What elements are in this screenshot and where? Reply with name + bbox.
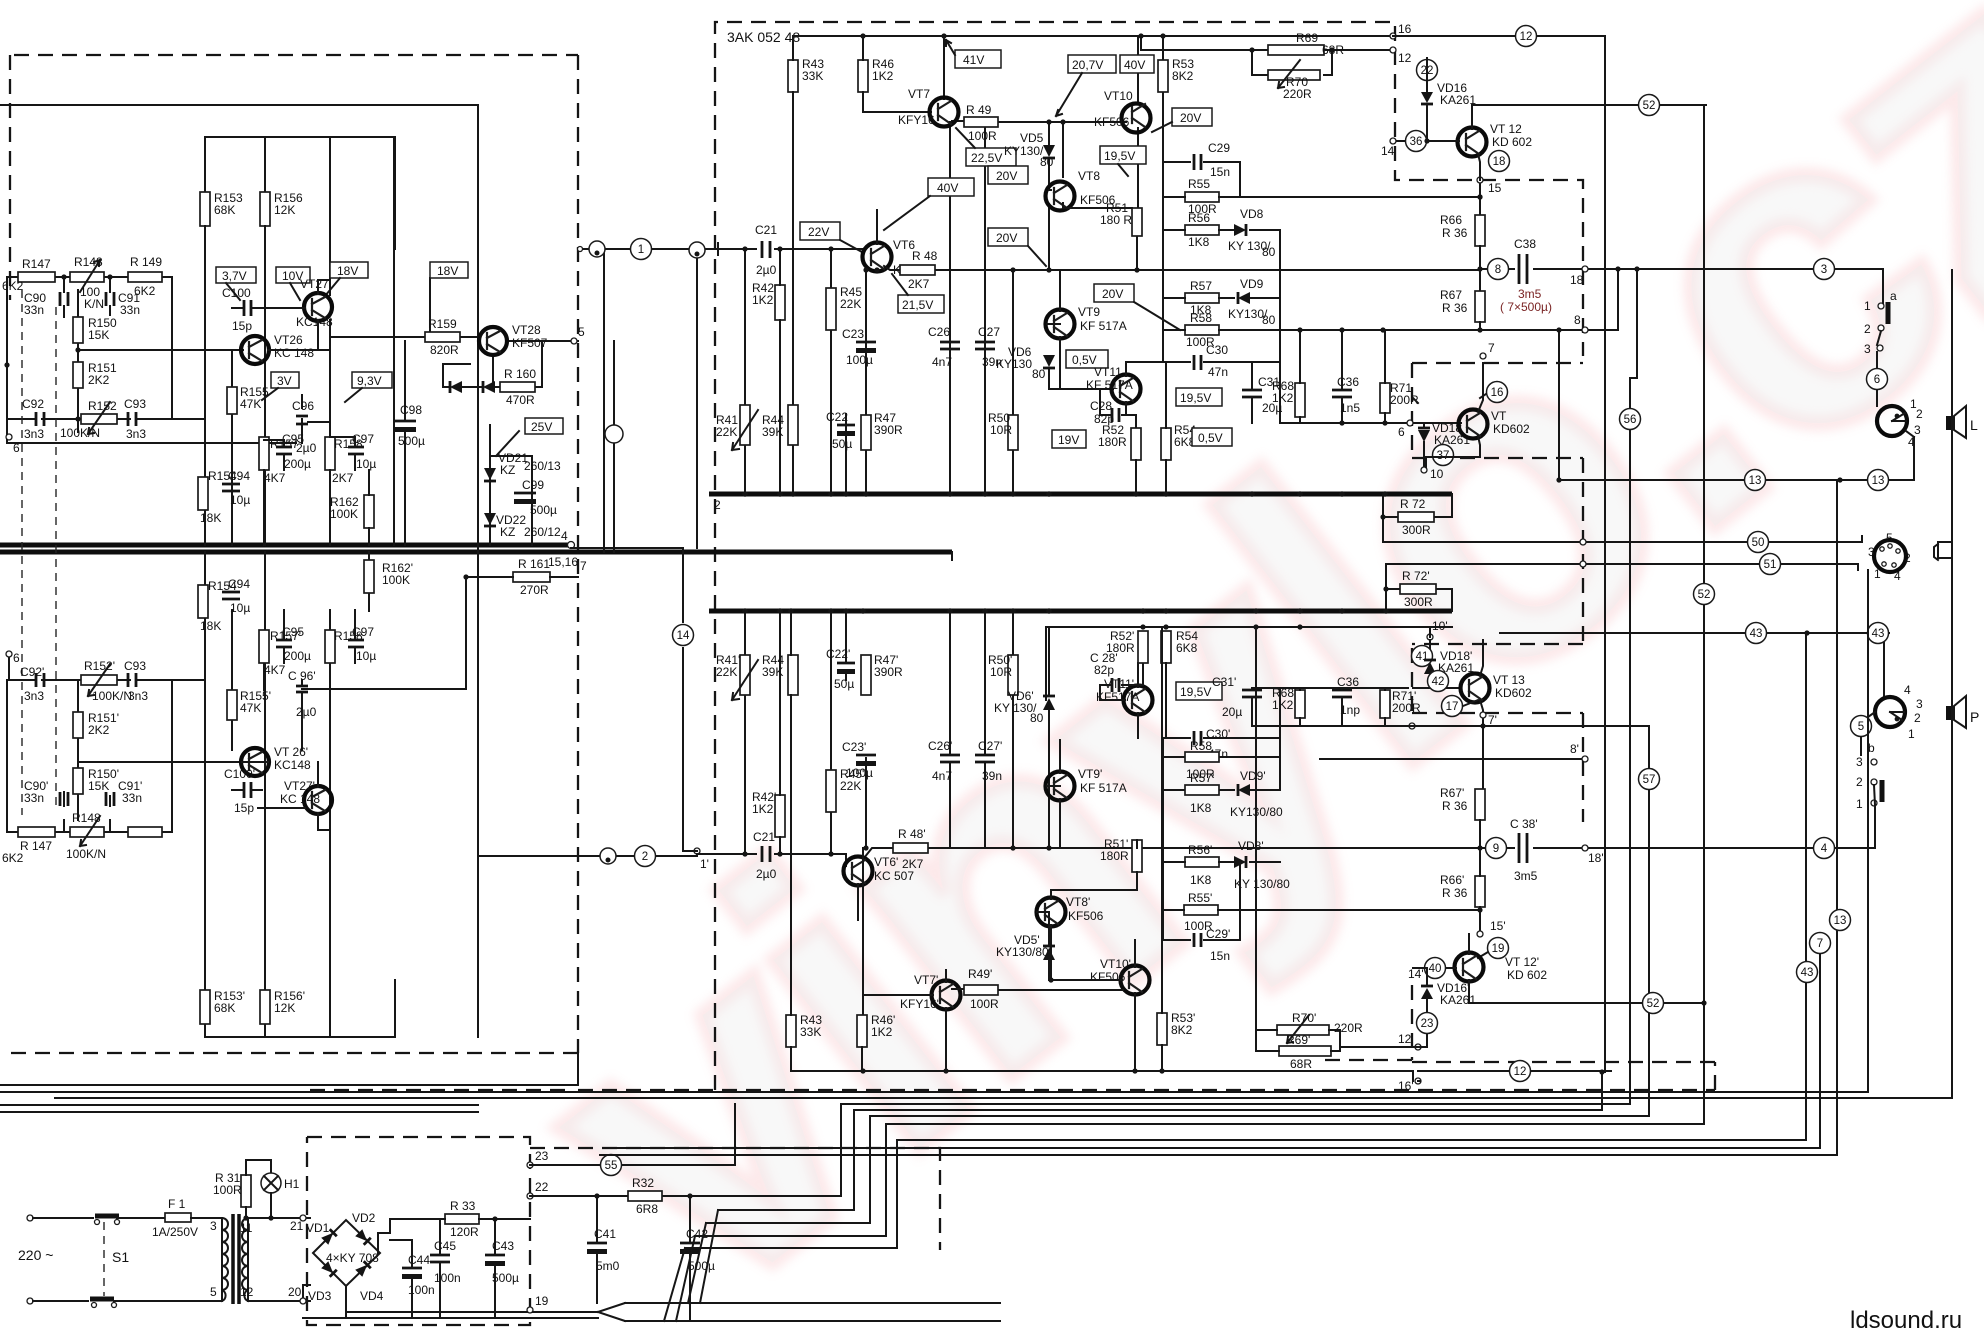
svg-text:VT 12': VT 12' [1505, 955, 1539, 969]
svg-text:R 36: R 36 [1442, 886, 1468, 900]
resistor R151b [73, 712, 83, 738]
svg-text:3,7V: 3,7V [222, 269, 247, 283]
svg-text:R66': R66' [1440, 873, 1464, 887]
svg-text:1A/250V: 1A/250V [152, 1225, 198, 1239]
main amplifier module dashed enclosure 3AK 052 48 [715, 22, 1583, 1090]
svg-text:12': 12' [1398, 1032, 1414, 1046]
svg-text:10µ: 10µ [230, 493, 250, 507]
svg-text:P: P [1970, 709, 1979, 725]
voltage box 9,3V [352, 372, 392, 388]
node 4 open [568, 542, 575, 549]
node 1b [694, 848, 700, 854]
node 6 input [6, 434, 12, 440]
svg-text:C95: C95 [282, 432, 304, 446]
circled 2 [635, 846, 656, 867]
svg-text:36: 36 [1410, 136, 1423, 148]
svg-text:C21': C21' [753, 830, 777, 844]
resistor R155 [227, 387, 237, 414]
resistor R49b [964, 985, 998, 995]
svg-text:12: 12 [1514, 1066, 1527, 1078]
svg-text:R 49: R 49 [966, 103, 992, 117]
svg-text:2: 2 [1904, 551, 1911, 565]
svg-text:VT28: VT28 [512, 323, 541, 337]
svg-text:C29: C29 [1208, 141, 1230, 155]
capacitor C22b [837, 662, 855, 665]
capacitor C95b [276, 640, 292, 647]
resistor R46 [858, 60, 868, 92]
svg-text:1: 1 [638, 244, 644, 256]
svg-text:2: 2 [1856, 775, 1863, 789]
svg-text:15,16: 15,16 [548, 555, 578, 569]
svg-text:14: 14 [1381, 144, 1395, 158]
resistor R47 [861, 415, 871, 450]
voltage box 20V a [1172, 108, 1212, 126]
svg-text:11: 11 [240, 1221, 253, 1235]
svg-text:R 149: R 149 [130, 255, 162, 269]
svg-text:VT8': VT8' [1066, 895, 1090, 909]
voltage box 20V d [1094, 284, 1134, 302]
circled 52 right [1694, 584, 1715, 605]
capacitor C98 [394, 420, 416, 423]
capacitor C44 [402, 1267, 422, 1270]
svg-text:KF 517A: KF 517A [1080, 319, 1127, 333]
svg-text:33K: 33K [800, 1025, 821, 1039]
diode VD23 pair [450, 381, 462, 393]
svg-text:2µ0: 2µ0 [756, 263, 777, 277]
node 5 out [571, 338, 577, 344]
wire: mid column links upper [264, 437, 369, 545]
circled 43 fan [1797, 962, 1818, 983]
svg-text:C 96': C 96' [288, 669, 316, 683]
wire: left section top run [0, 105, 478, 1037]
svg-text:VT10: VT10 [1104, 89, 1133, 103]
capacitor C23 [856, 341, 876, 344]
svg-text:4K7: 4K7 [264, 471, 286, 485]
resistor R72b [1400, 584, 1436, 594]
circled 3 [1814, 259, 1835, 280]
svg-text:270R: 270R [520, 583, 549, 597]
capacitor C26b [940, 755, 960, 762]
svg-text:VT10': VT10' [1100, 957, 1131, 971]
resistor R45 [826, 288, 836, 330]
svg-text:C98: C98 [400, 403, 422, 417]
circled 18 [1489, 151, 1510, 172]
svg-text:6K2: 6K2 [2, 279, 24, 293]
svg-text:22K: 22K [716, 665, 737, 679]
wire: net50/51 recorder lines [1383, 494, 1862, 611]
capacitor C29 [1163, 162, 1240, 197]
resistor R57 [1185, 293, 1219, 303]
svg-text:VD5: VD5 [1020, 131, 1044, 145]
svg-text:16: 16 [1491, 387, 1504, 399]
wire: amp columns [793, 36, 1163, 494]
svg-text:100K/N: 100K/N [66, 847, 106, 861]
svg-text:23: 23 [535, 1149, 549, 1163]
diode VD6b [1043, 698, 1055, 710]
wire: lower channel mid columns [205, 552, 466, 1037]
svg-text:3n3: 3n3 [128, 689, 148, 703]
svg-text:120R: 120R [450, 1225, 479, 1239]
resistor R43b [786, 1015, 796, 1047]
resistor R48b [893, 843, 928, 853]
wire: net43 speaker P [1500, 633, 1889, 697]
resistor R43 [788, 60, 798, 92]
svg-text:51: 51 [1764, 559, 1777, 571]
svg-text:39K: 39K [762, 425, 783, 439]
circled 14 [673, 625, 694, 646]
resistor R147 [18, 272, 55, 282]
circled 16 [1487, 382, 1508, 403]
circled 51 [1760, 554, 1781, 575]
svg-text:19,5V: 19,5V [1104, 149, 1135, 163]
wire: net3 speaker L feed [1630, 269, 1883, 378]
svg-text:10µ: 10µ [230, 601, 250, 615]
circled 56 [1620, 409, 1641, 430]
diode VD5 [1043, 145, 1055, 157]
svg-text:R58: R58 [1190, 739, 1212, 753]
wire: net15 row [1320, 180, 1480, 215]
svg-text:C99: C99 [522, 478, 544, 492]
svg-text:12: 12 [1520, 31, 1533, 43]
svg-text:500µ: 500µ [492, 1271, 519, 1285]
svg-text:55: 55 [605, 1160, 618, 1172]
svg-text:1K8: 1K8 [1190, 801, 1212, 815]
svg-text:VT 26': VT 26' [274, 745, 308, 759]
svg-text:VT9: VT9 [1078, 305, 1100, 319]
svg-text:R 161: R 161 [518, 557, 550, 571]
voltage box 18V [330, 262, 368, 278]
voltage box 20V b [988, 166, 1028, 184]
svg-text:R 160: R 160 [504, 367, 536, 381]
svg-text:VT27': VT27' [284, 779, 315, 793]
capacitor C96b [296, 686, 308, 692]
svg-text:8K2: 8K2 [1171, 1023, 1193, 1037]
resistor R49 [964, 117, 998, 127]
svg-text:42: 42 [1432, 676, 1445, 688]
svg-text:41V: 41V [963, 53, 984, 67]
resistor R42 [775, 285, 785, 320]
capacitor C27 [975, 342, 995, 349]
svg-text:R152: R152 [88, 399, 117, 413]
svg-text:33n: 33n [24, 303, 44, 317]
svg-text:15p: 15p [234, 801, 254, 815]
diode VD8 [1234, 224, 1246, 236]
svg-text:20V: 20V [996, 231, 1017, 245]
svg-text:100R: 100R [970, 997, 999, 1011]
svg-text:18V: 18V [437, 264, 458, 278]
svg-text:VT: VT [1491, 409, 1507, 423]
svg-text:C93: C93 [124, 659, 146, 673]
circled 43 pair [1746, 623, 1767, 644]
capacitor C21b [762, 846, 770, 862]
voltage box 19,5V a [1100, 146, 1146, 164]
resistor R58 [1185, 325, 1219, 335]
resistor R155b [227, 690, 237, 720]
svg-text:C100: C100 [222, 286, 251, 300]
svg-text:2: 2 [1916, 407, 1923, 421]
diode VD16 [1421, 92, 1433, 103]
voltage box 0,5V a [1066, 350, 1108, 368]
svg-text:180R: 180R [1098, 435, 1127, 449]
resistor R44b [788, 655, 798, 695]
capacitor C21 [762, 241, 770, 258]
wire: inter-box verticals [394, 137, 614, 552]
node 10 [1421, 467, 1427, 473]
svg-text:0,5V: 0,5V [1072, 353, 1097, 367]
svg-text:18: 18 [1493, 156, 1506, 168]
voltage box 22V [800, 222, 840, 240]
svg-text:10µ: 10µ [356, 457, 376, 471]
transistor VT26 [241, 336, 269, 364]
capacitor C93 [128, 412, 136, 426]
svg-text:4n7: 4n7 [932, 769, 952, 783]
svg-text:1: 1 [1908, 727, 1915, 741]
svg-text:2K7: 2K7 [902, 857, 924, 871]
resistor R67 [1475, 291, 1485, 322]
svg-text:13: 13 [1834, 915, 1847, 927]
resistor R70 (var) [1268, 70, 1320, 80]
svg-text:KD602: KD602 [1495, 686, 1532, 700]
resistor R58b [1185, 752, 1219, 762]
svg-text:5: 5 [578, 325, 585, 339]
resistor R53b [1157, 1013, 1167, 1045]
svg-text:3n3: 3n3 [126, 427, 146, 441]
svg-text:43: 43 [1872, 628, 1885, 640]
svg-text:VD9: VD9 [1240, 277, 1264, 291]
svg-text:R 48: R 48 [912, 249, 938, 263]
transistor VT26b [241, 748, 269, 776]
voltage box 40V b [928, 178, 974, 196]
resistor R66 [1475, 215, 1485, 246]
resistor R149b [128, 827, 162, 837]
svg-text:12K: 12K [274, 1001, 295, 1015]
circled 4 [1814, 838, 1835, 859]
svg-text:KF 517A: KF 517A [1086, 378, 1133, 392]
svg-text:19: 19 [1492, 943, 1505, 955]
svg-text:180R: 180R [1100, 849, 1129, 863]
fuse F1 [165, 1213, 191, 1222]
svg-text:500µ: 500µ [530, 503, 557, 517]
capacitor C95 [276, 447, 292, 454]
resistor R159 [425, 332, 460, 342]
transistor VT12 [1458, 128, 1487, 157]
capacitor C27b [975, 755, 995, 762]
svg-text:KA261: KA261 [1440, 93, 1476, 107]
node 15b [1477, 931, 1483, 937]
circled 55 [601, 1155, 622, 1176]
svg-text:25V: 25V [531, 420, 552, 434]
svg-text:15n: 15n [1210, 165, 1230, 179]
svg-text:KF507: KF507 [512, 336, 548, 350]
diode VD9b [1238, 784, 1250, 796]
svg-text:KD 602: KD 602 [1507, 968, 1547, 982]
svg-text:40V: 40V [937, 181, 958, 195]
svg-text:6: 6 [1874, 374, 1880, 386]
svg-text:R56': R56' [1188, 843, 1212, 857]
svg-text:52: 52 [1698, 589, 1711, 601]
svg-text:200R: 200R [1392, 701, 1421, 715]
svg-text:14: 14 [677, 630, 690, 642]
resistor R148b (var) [70, 827, 104, 837]
svg-text:10R: 10R [990, 423, 1012, 437]
svg-text:KFY16: KFY16 [898, 113, 935, 127]
svg-text:3: 3 [1868, 545, 1875, 559]
svg-text:R148: R148 [72, 811, 101, 825]
capacitor C38 [1519, 254, 1527, 284]
svg-text:KF506: KF506 [1068, 909, 1104, 923]
resistor R48 [900, 265, 935, 275]
svg-text:VT7: VT7 [908, 87, 930, 101]
svg-text:22K: 22K [716, 425, 737, 439]
svg-text:100K: 100K [330, 507, 358, 521]
svg-text:KC148: KC148 [274, 758, 311, 772]
resistor R32 [628, 1191, 662, 1201]
wire: net8b row [1280, 738, 1583, 790]
svg-text:15K: 15K [88, 328, 109, 342]
svg-text:200µ: 200µ [284, 649, 311, 663]
resistor R69b [1279, 1046, 1331, 1056]
svg-text:18K: 18K [200, 619, 221, 633]
bridge rectifier VD1-VD4 [0, 0, 1, 1]
bus junction dots [742, 491, 1388, 497]
resistor R52 [1131, 428, 1141, 460]
svg-text:1K2: 1K2 [872, 69, 894, 83]
svg-text:68K: 68K [214, 1001, 235, 1015]
svg-text:18': 18' [1588, 851, 1604, 865]
capacitor C28 [1112, 408, 1119, 422]
svg-text:8': 8' [1570, 742, 1579, 756]
svg-text:R 36: R 36 [1442, 226, 1468, 240]
capacitor C26 [940, 342, 960, 349]
capacitor C99 [514, 492, 536, 495]
svg-text:260/12: 260/12 [524, 525, 561, 539]
svg-text:C30: C30 [1206, 343, 1228, 357]
svg-text:4: 4 [1904, 683, 1911, 697]
svg-text:300R: 300R [1404, 595, 1433, 609]
svg-text:20V: 20V [1102, 287, 1123, 301]
svg-text:15n: 15n [1210, 949, 1230, 963]
svg-text:2K2: 2K2 [88, 723, 110, 737]
svg-text:R56: R56 [1188, 211, 1210, 225]
wire: return rails across page [0, 270, 1952, 1098]
svg-text:KD602: KD602 [1493, 422, 1530, 436]
connector L [1877, 406, 1907, 436]
circled 52 low [1643, 993, 1664, 1014]
svg-text:a: a [1890, 289, 1897, 303]
svg-text:43: 43 [1750, 628, 1763, 640]
svg-text:KZ: KZ [500, 463, 515, 477]
svg-text:KD 602: KD 602 [1492, 135, 1532, 149]
svg-text:ldsound.ru: ldsound.ru [1850, 1307, 1962, 1334]
svg-text:C26': C26' [928, 739, 952, 753]
svg-text:VT6': VT6' [874, 855, 898, 869]
voltage box 19V [1052, 430, 1086, 448]
mains terminals [27, 1215, 33, 1221]
resistor R151 [73, 362, 83, 388]
recorder icon [1934, 542, 1952, 560]
capacitor C96 [296, 416, 308, 424]
resistor R56b [1185, 857, 1219, 867]
circled 6 [1867, 369, 1888, 390]
resistor R55b [1184, 905, 1218, 915]
svg-text:VD9': VD9' [1240, 769, 1266, 783]
resistor R69 [1268, 45, 1324, 55]
diode VD22 [484, 513, 496, 525]
resistor R152b (var) [81, 675, 117, 685]
svg-text:3: 3 [210, 1219, 217, 1233]
capacitor C90b [60, 792, 68, 806]
resistor R156 [260, 192, 270, 226]
resistor R31 [241, 1175, 251, 1207]
svg-text:1K2: 1K2 [752, 293, 774, 307]
svg-text:R 48': R 48' [898, 827, 926, 841]
svg-text:470R: 470R [506, 393, 535, 407]
svg-text:4: 4 [1894, 569, 1901, 583]
transistor VT12b [1455, 953, 1484, 982]
svg-text:R58: R58 [1190, 311, 1212, 325]
svg-text:KF 517A: KF 517A [1080, 781, 1127, 795]
wire: left input row net1 [580, 249, 718, 548]
svg-text:16: 16 [1398, 22, 1412, 36]
svg-text:VT 13: VT 13 [1493, 673, 1525, 687]
module bottom dashed edge [310, 1062, 1715, 1090]
svg-text:20: 20 [288, 1285, 302, 1299]
svg-text:C29': C29' [1206, 927, 1230, 941]
svg-text:100R: 100R [968, 129, 997, 143]
node 7b [1480, 712, 1486, 718]
svg-text:1: 1 [1864, 299, 1871, 313]
svg-text:20µ: 20µ [1222, 705, 1242, 719]
transistor VT11 [1112, 375, 1141, 404]
svg-text:15K: 15K [88, 779, 109, 793]
capacitor C91b [106, 792, 114, 806]
svg-text:R 36: R 36 [1442, 301, 1468, 315]
svg-text:1n5: 1n5 [1340, 401, 1360, 415]
wire: base line y423 upper output [1280, 422, 1461, 424]
wire: tone network upper [7, 277, 330, 443]
svg-text:C27: C27 [978, 325, 1000, 339]
svg-text:390R: 390R [874, 423, 903, 437]
amp bus lower [709, 609, 1452, 614]
resistor R153 [200, 192, 210, 226]
resistor R154 [198, 477, 208, 510]
svg-text:R69': R69' [1286, 1033, 1310, 1047]
node 16b [1415, 1078, 1421, 1084]
svg-text:19: 19 [535, 1294, 549, 1308]
resistor R57b [1185, 785, 1219, 795]
svg-text:C43: C43 [492, 1239, 514, 1253]
resistor R72 [1398, 512, 1434, 522]
capacitor C30 [1194, 355, 1201, 370]
svg-text:52: 52 [1643, 100, 1656, 112]
svg-text:19,5V: 19,5V [1180, 391, 1211, 405]
svg-text:C94: C94 [228, 469, 250, 483]
svg-text:33n: 33n [120, 303, 140, 317]
svg-text:300R: 300R [1402, 523, 1431, 537]
voltage box 3V [271, 372, 299, 388]
svg-text:R 72': R 72' [1402, 569, 1430, 583]
svg-text:KC 148: KC 148 [280, 792, 320, 806]
resistor R162 [364, 495, 374, 528]
svg-text:VD8': VD8' [1238, 839, 1264, 853]
resistor R51 [1132, 208, 1142, 236]
svg-text:5: 5 [1858, 721, 1864, 733]
svg-text:KY130/: KY130/ [1004, 144, 1044, 158]
capacitor C94b [222, 592, 240, 599]
svg-text:C22: C22 [826, 410, 848, 424]
resistor R158b [325, 630, 335, 663]
svg-text:1: 1 [1874, 567, 1881, 581]
